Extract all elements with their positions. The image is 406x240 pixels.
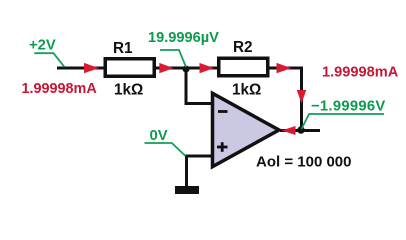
- svg-text:19.9996µV: 19.9996µV: [148, 30, 219, 46]
- current arrow down on output branch: [297, 90, 307, 104]
- op-amp U1: [213, 93, 280, 166]
- probe line 0V: [145, 143, 186, 156]
- svg-text:R1: R1: [113, 40, 133, 57]
- svg-text:0V: 0V: [150, 128, 168, 144]
- probe line -1.99996V: [302, 114, 385, 129]
- node A junction dot: [183, 66, 190, 73]
- resistor R1: [105, 59, 154, 77]
- wire R1 to node A: [155, 67, 186, 70]
- node B output junction dot: [297, 126, 304, 133]
- op-amp plus pin marker: [217, 142, 228, 152]
- probe line +2V: [34, 53, 64, 67]
- current arrow into R1: [84, 63, 99, 73]
- wire non-inverting input: [185, 155, 211, 158]
- wire ground stem: [185, 156, 188, 187]
- wire R2 to output corner and down to output node: [269, 68, 302, 130]
- ground: [175, 186, 199, 194]
- current arrow R1 to node A: [159, 63, 173, 73]
- resistor R2: [219, 58, 268, 76]
- current arrow into op-amp output: [282, 126, 296, 135]
- op-amp minus pin marker: [218, 110, 228, 113]
- probe line 19.9996uV: [160, 50, 186, 67]
- svg-text:−1.99996V: −1.99996V: [311, 99, 386, 115]
- svg-text:1.99998mA: 1.99998mA: [322, 65, 399, 81]
- wire node A to R2: [186, 67, 218, 70]
- svg-text:R2: R2: [233, 39, 253, 56]
- svg-text:+2V: +2V: [29, 38, 56, 54]
- svg-text:1kΩ: 1kΩ: [114, 82, 143, 99]
- svg-text:Aol = 100 000: Aol = 100 000: [256, 154, 351, 171]
- wire input from +2V source to R1: [57, 67, 105, 70]
- wire node A down to inverting input: [186, 68, 211, 104]
- current arrow out of R2: [277, 63, 292, 73]
- current arrow node A to R2: [200, 63, 215, 73]
- svg-text:1kΩ: 1kΩ: [232, 81, 261, 98]
- wire op-amp output to node B and stub: [280, 129, 320, 132]
- svg-text:1.99998mA: 1.99998mA: [22, 81, 98, 97]
